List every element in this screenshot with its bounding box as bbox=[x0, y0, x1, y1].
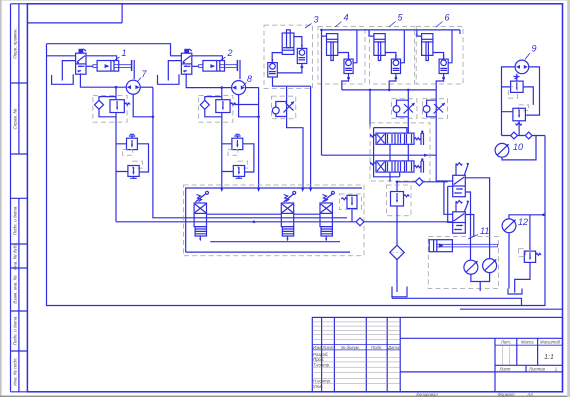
page edge shading bbox=[0, 0, 2, 397]
motor 8 bbox=[232, 81, 246, 95]
directional valve B bbox=[371, 158, 424, 172]
svg-text:Изм: Изм bbox=[313, 345, 321, 350]
bottom bus short bbox=[392, 297, 563, 309]
wire pump12 bbox=[465, 215, 543, 289]
spool valve v2 bbox=[281, 191, 295, 241]
label 7 bbox=[138, 69, 148, 82]
check valve unit4 bbox=[338, 30, 357, 90]
valve v4 small bbox=[339, 194, 361, 222]
check valve unit6 bbox=[433, 30, 452, 90]
check valve right unit3 bbox=[277, 37, 307, 73]
svg-text:А3: А3 bbox=[526, 392, 533, 397]
wire supply x322 bbox=[322, 30, 437, 155]
cylinder unit3 bbox=[282, 30, 294, 55]
wire unit9 loop bbox=[502, 67, 540, 136]
cylinder 11 bbox=[429, 240, 497, 252]
svg-text:Лист: Лист bbox=[321, 345, 333, 350]
unit 3 dashed box bbox=[264, 25, 312, 89]
spool valve v1 bbox=[194, 191, 208, 241]
label 1 bbox=[113, 48, 127, 62]
check valve left unit3 bbox=[268, 53, 311, 97]
wire loops around valves AB bbox=[374, 128, 409, 182]
svg-text:9: 9 bbox=[532, 44, 537, 54]
valve 9b bbox=[502, 105, 529, 136]
svg-text:Перв. примен.: Перв. примен. bbox=[12, 28, 17, 59]
pilot valve ckt2 bbox=[181, 49, 191, 74]
wire left outer loop bbox=[47, 44, 546, 306]
block inner rails bbox=[186, 188, 362, 252]
wire bus y181.8 with node bbox=[397, 178, 448, 191]
valve C center bbox=[387, 185, 412, 245]
svg-text:Подп.: Подп. bbox=[371, 345, 382, 350]
svg-text:Лист: Лист bbox=[498, 367, 510, 372]
svg-text:Утв.: Утв. bbox=[313, 384, 323, 389]
pumps 11 bbox=[464, 259, 497, 291]
pump 12 bbox=[502, 219, 516, 233]
svg-text:3: 3 bbox=[314, 15, 319, 25]
motor 9 bbox=[515, 60, 529, 74]
title block texts bbox=[313, 340, 561, 397]
svg-text:№ докум.: № докум. bbox=[341, 345, 360, 350]
left margin rotated labels bbox=[12, 28, 17, 386]
cylinder unit5 bbox=[369, 30, 385, 61]
svg-text:4: 4 bbox=[344, 13, 349, 23]
svg-text:6: 6 bbox=[445, 13, 450, 23]
svg-text:Подп. и дата: Подп. и дата bbox=[12, 206, 17, 235]
labels 4 5 6 bbox=[335, 13, 349, 28]
svg-text:11: 11 bbox=[480, 226, 489, 236]
label 11 bbox=[468, 226, 489, 239]
cylinder 1 bbox=[86, 56, 134, 79]
filter bbox=[390, 245, 404, 292]
svg-text:8: 8 bbox=[247, 74, 252, 84]
svg-text:Листов: Листов bbox=[528, 367, 545, 372]
svg-text:Масштаб: Масштаб bbox=[540, 340, 561, 345]
svg-text:Проб.: Проб. bbox=[313, 357, 325, 362]
svg-text:Копировал: Копировал bbox=[416, 392, 438, 397]
cylinder unit6 bbox=[417, 30, 460, 61]
top bus units 4-6 bbox=[322, 29, 461, 31]
svg-text:Взам. инв. №: Взам. инв. № bbox=[12, 275, 17, 303]
relief box B bbox=[422, 90, 447, 155]
cylinder unit4 bbox=[322, 34, 338, 61]
pilot valve ckt1 bbox=[76, 49, 86, 74]
unit 11 dashed box bbox=[428, 236, 498, 288]
pilot valve stack1 right bbox=[453, 163, 469, 197]
relief box A bbox=[392, 90, 417, 133]
brake valve box ckt2 bbox=[199, 88, 259, 188]
spool valve v3 bbox=[320, 191, 334, 241]
valve 9a bbox=[502, 76, 534, 105]
tank right bbox=[508, 289, 522, 295]
svg-text:Подп. и дата: Подп. и дата bbox=[12, 316, 17, 345]
wire bus y93.1 bbox=[369, 90, 371, 128]
svg-text:Н.контр.: Н.контр. bbox=[313, 379, 331, 384]
wire supply bus top bbox=[47, 44, 182, 56]
label 10 bbox=[513, 142, 523, 152]
svg-text:Дата: Дата bbox=[387, 345, 400, 350]
svg-text:2: 2 bbox=[227, 48, 233, 58]
tank ckt1 bbox=[52, 61, 76, 85]
svg-text:Справ. №: Справ. № bbox=[12, 109, 17, 130]
pilot valve stack2 right bbox=[453, 201, 469, 234]
wire ckt1 rails to block bbox=[116, 87, 453, 222]
wire ckt2 rails down bbox=[258, 87, 260, 188]
main block dashed box bbox=[183, 185, 364, 256]
check valve unit5 bbox=[385, 30, 404, 90]
top-left corner stamp box bbox=[27, 4, 122, 23]
svg-text:12: 12 bbox=[518, 217, 528, 227]
wire motor7 row bbox=[80, 73, 152, 116]
brake valve box ckt1 bbox=[93, 87, 130, 222]
label 9 bbox=[525, 44, 537, 60]
svg-text:Лит.: Лит. bbox=[500, 340, 511, 345]
svg-text:Масса: Масса bbox=[521, 340, 534, 345]
wire bus y88.9 bbox=[342, 89, 436, 91]
label 2 bbox=[219, 48, 233, 62]
wire pilot stack rails bbox=[436, 155, 489, 260]
svg-text:10: 10 bbox=[513, 142, 523, 152]
label 12 bbox=[518, 217, 528, 227]
wire motor8 row bbox=[186, 73, 258, 116]
check nodes bus bbox=[502, 132, 546, 139]
tank ckt2 bbox=[158, 61, 182, 85]
cylinder 2 bbox=[192, 56, 240, 79]
svg-text:Инв. № дубл.: Инв. № дубл. bbox=[12, 242, 17, 270]
junction arrows on top rail bbox=[220, 188, 312, 192]
pump 10 bbox=[495, 136, 536, 160]
svg-text:Формат: Формат bbox=[497, 392, 514, 397]
svg-text:Т.контр.: Т.контр. bbox=[313, 363, 330, 368]
motor 7 bbox=[126, 80, 140, 94]
left margin strip bbox=[10, 4, 12, 392]
spool valves AB dashed box bbox=[370, 123, 430, 181]
check valve stack ckt1 bbox=[116, 134, 149, 178]
junction arrow on bus155 bbox=[424, 154, 429, 157]
units 4-6 dashed boxes bbox=[318, 27, 365, 84]
svg-text:Инв. № подл.: Инв. № подл. bbox=[12, 357, 17, 386]
directional valve A bbox=[371, 131, 424, 146]
svg-text:1: 1 bbox=[122, 48, 127, 58]
wire buses through block bbox=[207, 214, 365, 226]
label 8 bbox=[243, 74, 252, 86]
relief valve box unit3 bbox=[272, 96, 296, 119]
title block bbox=[312, 317, 562, 391]
wire unit3 drains to block bbox=[287, 86, 311, 188]
tank center bbox=[392, 287, 407, 297]
check valve stack ckt2 bbox=[222, 134, 254, 178]
svg-text:1:1: 1:1 bbox=[544, 354, 554, 361]
valve 12b bbox=[515, 249, 541, 293]
label 3 bbox=[305, 15, 319, 29]
